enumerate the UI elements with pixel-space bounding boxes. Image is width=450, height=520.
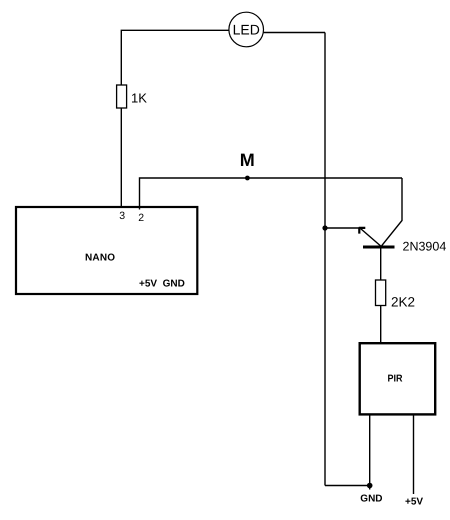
wire: NANO pin 2 up to node M line — [140, 178, 403, 210]
svg-text:2K2: 2K2 — [391, 295, 415, 310]
GND junction dot — [367, 483, 373, 489]
resistor R2 2K2 — [376, 280, 416, 310]
emitter diagonal — [361, 229, 381, 247]
wire: bottom horizontal to GND junction — [325, 485, 370, 487]
svg-text:GND: GND — [360, 494, 382, 505]
LED D1 — [229, 12, 264, 47]
NANO U1 — [16, 207, 197, 294]
transistor Q1 2N3904 — [359, 227, 447, 280]
base lead down — [380, 249, 382, 281]
wire: PIR right lead down to +5V — [413, 415, 415, 494]
wire: collector drop from M line — [382, 178, 402, 246]
svg-text:PIR: PIR — [388, 374, 404, 385]
svg-text:+5V: +5V — [405, 497, 423, 508]
base bar — [363, 246, 395, 249]
emitter arrowhead — [359, 227, 366, 233]
svg-text:M: M — [240, 150, 255, 170]
wire: emitter horizontal — [325, 227, 361, 229]
node M junction dot — [245, 176, 250, 181]
wire: 1K bottom to NANO pin 3 — [120, 108, 122, 207]
svg-text:LED: LED — [233, 22, 260, 38]
resistor R1 1K — [117, 85, 148, 108]
svg-text:2N3904: 2N3904 — [403, 240, 447, 254]
wire: 2K2 to PIR — [380, 306, 382, 344]
wire: top-left horizontal from 1K to LED — [121, 30, 228, 85]
svg-text:3: 3 — [119, 210, 125, 222]
wire: long right vertical (LED cathode down to bottom) — [324, 33, 326, 486]
junction dot on emitter net — [322, 225, 327, 230]
svg-text:2: 2 — [138, 212, 144, 224]
wire: LED right to top of long vertical — [264, 32, 325, 34]
svg-text:1K: 1K — [131, 91, 147, 106]
svg-text:+5V GND: +5V GND — [139, 279, 185, 290]
PIR module — [360, 343, 436, 414]
wire: PIR left lead down to GND node — [369, 415, 371, 490]
svg-text:NANO: NANO — [85, 252, 115, 263]
